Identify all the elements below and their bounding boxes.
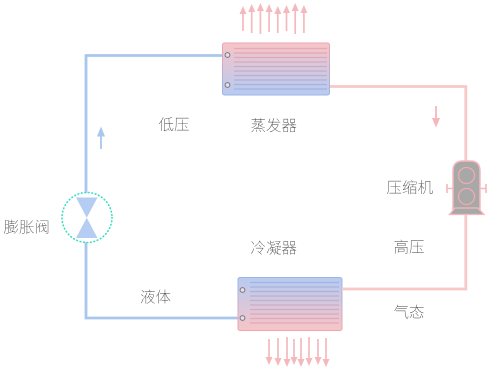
label liquid 液体 <box>141 290 170 304</box>
compressor pin right <box>480 184 486 193</box>
label condenser 冷凝器 <box>251 241 296 255</box>
label gas 气态 <box>394 305 423 319</box>
condenser port bottom <box>240 316 245 321</box>
evaporator port top <box>225 53 230 58</box>
expansion valve hourglass <box>76 198 98 239</box>
compressor base <box>450 208 485 215</box>
wire liquid blue: expansion valve to condenser <box>86 242 241 318</box>
label expansion-valve 膨胀阀 <box>4 220 48 234</box>
label high-pressure 高压 <box>394 240 423 254</box>
wire low-pressure blue: evaporator to expansion valve <box>86 56 228 194</box>
label evaporator 蒸发器 <box>251 118 296 132</box>
evaporator port bottom <box>225 83 230 88</box>
flow arrow up (blue, left side) <box>100 133 102 149</box>
wire discharge pink: compressor to condenser <box>343 214 466 289</box>
label low-pressure 低压 <box>159 117 189 131</box>
condenser divider <box>249 279 251 329</box>
condenser port top <box>240 288 245 293</box>
wire suction pink: evaporator to compressor <box>327 87 466 163</box>
condenser body <box>238 278 342 331</box>
flow arrow down (pink, right side) <box>435 106 437 120</box>
evaporator fins <box>234 49 327 90</box>
compressor cylinder bottom <box>459 189 475 205</box>
evaporator body <box>223 43 330 95</box>
expansion valve circle <box>62 193 112 243</box>
evaporator divider <box>233 44 235 94</box>
condenser fins <box>250 283 339 324</box>
heat arrows below condenser <box>268 339 270 359</box>
compressor cylinder top <box>459 168 475 184</box>
heat arrows above evaporator <box>242 13 244 32</box>
compressor body <box>453 161 480 210</box>
label compressor 压缩机 <box>387 180 432 194</box>
compressor pin left <box>447 184 453 193</box>
